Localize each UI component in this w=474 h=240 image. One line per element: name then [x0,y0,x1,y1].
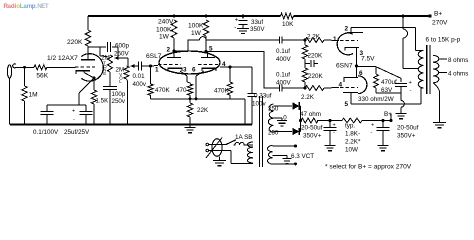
label pin 5 U3B [345,101,349,108]
triode U3A plate [347,28,363,33]
node B+ rail junctions [173,14,432,17]
svg-text:100K: 100K [156,27,172,34]
node cathode 6SN7 [355,65,358,68]
svg-text:B+: B+ [434,11,442,18]
svg-text:* select for B+ = approx 270V: * select for B+ = approx 270V [325,163,412,170]
label 100p [112,91,126,98]
wire 8 ohm tap [439,58,447,60]
triode U3A envelope [337,33,353,55]
label pin 4 U3B [339,82,343,89]
wire 470 bottom [189,95,191,99]
wire tone bottom to 100p [109,72,111,86]
capacitor 100p [103,87,117,90]
capacitor 0.33uf [248,94,257,97]
wire 330 bottom bus [376,87,401,94]
svg-text:6.3 VCT: 6.3 VCT [291,153,314,160]
svg-text:600p: 600p [115,43,130,50]
label pin 6 [192,67,196,74]
resistor 100K 1W second [203,20,208,36]
label 100v [252,101,267,108]
svg-text:6 to 15K p-p: 6 to 15K p-p [426,37,461,44]
resistor 470K right [227,82,232,95]
label 1A SB [235,134,253,141]
svg-text:470: 470 [176,87,187,94]
wire 1M bottom lead [24,101,26,125]
svg-text:-: - [410,88,412,94]
fuse 1A SB [234,142,254,145]
wire plate1 coupling [174,37,279,51]
svg-text:0.1/100V: 0.1/100V [33,129,59,136]
label 100K 1W second [188,23,204,38]
label 8 ohms [448,57,468,64]
label 1.5K [96,98,110,105]
resistor 2.2K second [305,86,324,91]
label 470K right [214,88,230,95]
wire 220K1 top lead [304,40,306,45]
svg-text:+: + [371,123,374,129]
label 6SN7 [336,63,353,70]
label 33uf [251,19,263,26]
label 6 to 15K p-p [426,37,461,44]
svg-text:+: + [235,18,239,24]
ground amp [185,128,196,133]
wire 1.5K top [93,78,95,90]
label typ [345,123,355,130]
wire plate to 600p [88,46,106,47]
svg-text:20-50uf: 20-50uf [301,125,323,132]
svg-text:1.8K-: 1.8K- [345,131,360,138]
transformer T1 6.3V winding [268,146,273,165]
label 470K left [155,87,171,94]
svg-text:250: 250 [268,130,279,137]
node plate2 [205,50,208,53]
svg-text:1W: 1W [191,30,202,37]
wire grid junction drop [150,66,152,84]
svg-text:350V: 350V [250,26,265,33]
label pin 4 [222,61,226,68]
label 350V+ first [303,133,322,140]
label 20-50uf first [301,125,323,132]
wire 600p to tone tap [112,47,118,58]
svg-text:B+: B+ [384,111,392,118]
wire 33uf lead [242,16,244,18]
ground HV center [277,121,287,126]
resistor 220K plate [85,30,90,46]
label 1.8K [345,131,360,138]
resistor 100K 1W first [171,20,176,38]
svg-text:1: 1 [333,36,337,43]
label pin 1 U3A [333,36,337,43]
label B+ out [384,111,392,118]
label 220K divider top [308,53,324,60]
label 2.2K first [307,33,321,40]
svg-text:330 ohm/2W: 330 ohm/2W [358,96,394,103]
svg-text:270V: 270V [432,20,448,27]
label 63V [381,87,393,94]
svg-text:33uf: 33uf [251,19,263,26]
wire 1M top lead [24,67,26,86]
label 20-50uf second [397,125,419,132]
transformer T2 core [427,45,430,94]
triode U3B cathode [344,67,358,83]
svg-text:1/2 12AX7: 1/2 12AX7 [47,55,78,62]
wire cathode ground hop [401,93,404,113]
svg-text:2.2K: 2.2K [307,33,321,40]
resistor 47 ohm [301,118,318,123]
label 350V [250,26,265,33]
wire plug ground [219,156,221,160]
label pin 2 [167,47,171,54]
wire HV center tap [274,118,283,120]
label 6.3 VCT [291,153,314,160]
svg-text:100K: 100K [188,23,204,30]
wire 2.2K to pin1 [324,39,339,42]
triode U3A cathode [345,48,359,67]
capacitor 20-50uf second [371,121,390,146]
wire tone wiper to vol [127,58,129,66]
svg-text:25uf/25V: 25uf/25V [64,129,90,136]
ground speaker [433,123,446,128]
label VOL vertical [119,72,123,84]
svg-text:0.1uf: 0.1uf [276,72,290,79]
wire 220K top lead [87,16,89,30]
label 0.01 [133,73,146,80]
wire 0.01 to grid [142,65,158,68]
resistor 10K [281,13,294,19]
wire B+ out [390,114,392,121]
transformer T2 primary [418,51,423,89]
svg-text:350V+: 350V+ [397,133,416,140]
svg-text:2: 2 [345,26,349,33]
transformer T1 HV secondary [268,104,273,133]
label pin 3 U3A [360,50,364,57]
wire 100K-1 to plate [173,38,175,51]
svg-text:350V+: 350V+ [303,133,322,140]
resistor 2.2K first [305,38,324,43]
svg-text:1W: 1W [159,34,170,41]
svg-text:7.5V: 7.5V [361,56,375,63]
svg-text:typ.: typ. [345,123,355,130]
svg-text:100p: 100p [112,91,126,98]
label 47 ohm [300,111,321,118]
triode U2B cathode [202,68,216,71]
resistor filter series [342,118,362,123]
label 10K [282,21,294,28]
svg-text:2.2K: 2.2K [301,94,315,101]
label 25uf/25V [64,129,90,136]
resistor 470K left [148,84,153,95]
svg-text:0.1uf: 0.1uf [276,48,290,55]
svg-text:220K: 220K [308,53,324,60]
svg-text:6: 6 [192,67,196,74]
svg-text:10W: 10W [345,147,358,154]
wire 100p bottom [109,90,111,125]
label 1M [29,92,38,99]
svg-text:220K: 220K [67,39,83,46]
triode U1 cathode [76,71,90,74]
label 0 center [283,115,287,122]
wire 470K left bottom [150,95,152,99]
wire 470K right bottom [229,95,231,99]
node rectifier [299,119,302,122]
label 7.5V [361,56,375,63]
wire vol wiper tail [137,65,139,67]
potentiometer 2M volume [124,66,129,79]
label 2.2K star [345,139,361,146]
resistor 22K [187,103,192,117]
wire B+ to OPT center tap [403,16,418,69]
wire 6.3 center tap [273,156,288,159]
label 2M tone [101,54,110,61]
wire 22K top [189,99,191,103]
wire cathode bus [357,67,402,83]
svg-text:1A SB: 1A SB [235,134,253,141]
wire 0.1uf2 to 2.2K2 [282,87,305,89]
ground 6SN7 cathode [396,114,407,119]
wire divider node [304,59,306,68]
svg-text:1.5K: 1.5K [96,98,110,105]
triode U2B plate [201,52,215,58]
svg-text:220K: 220K [308,73,324,80]
label 1/2 12AX7 [47,55,78,62]
label 250 bottom [268,130,279,137]
ground filter cap2 [378,146,389,151]
svg-text:+: + [333,123,336,129]
triode U3B envelope [358,76,367,94]
potentiometer 2M tone [108,55,113,72]
svg-text:E: E [103,71,106,76]
transformer T1 core [260,96,263,167]
svg-text:5: 5 [345,101,349,108]
wire filter 1 [317,120,342,122]
wire 6.3 top [273,145,298,148]
ground 6.3 center [283,158,292,163]
label 330 ohm 2W [358,96,394,103]
wire plate2 coupling [206,52,279,89]
node pin4 junction [229,66,232,69]
wire input to 56K [16,66,34,68]
wire bottom ground rail [10,124,252,126]
svg-text:6SL7: 6SL7 [146,53,162,60]
svg-text:4: 4 [339,82,343,89]
svg-text:1: 1 [155,67,159,74]
wire rectifier out [300,120,303,122]
label 10W [345,147,358,154]
wire bypass cap bus [47,104,86,106]
label 2.2K second [301,94,315,101]
wire pin4 to 470K right [220,67,252,82]
wire plug bottom prong [209,151,253,164]
wire U2A cathode lead [180,71,191,83]
svg-text:250V: 250V [114,50,130,57]
wire 100K-2 to plate [205,36,207,52]
wire pin4 to 0.33uf [251,67,253,94]
label 56K [36,73,48,80]
label 0.1/100V [33,129,59,136]
svg-text:-: - [73,117,75,123]
wire 22K bottom [189,117,191,127]
svg-text:2.2K*: 2.2K* [345,139,361,146]
resistor 1.5K [91,90,96,104]
svg-text:250v: 250v [112,98,126,105]
svg-text:10K: 10K [282,21,294,28]
svg-text:47 ohm: 47 ohm [300,111,321,118]
wire 33uf to ground [242,25,244,29]
wire HV bottom tap [274,131,293,133]
pot volume wiper arrow [131,64,139,68]
svg-text:3: 3 [183,67,187,74]
capacitor 33uf 350V [234,18,247,32]
node 220K top [304,39,307,42]
svg-text:22K: 22K [197,107,209,114]
wire 6.3 bottom [273,162,298,165]
label 0.1uf second [276,72,290,79]
svg-text:-: - [333,130,335,136]
tube U2 6SL7 envelope [159,51,220,74]
triode U3B grid [340,87,358,89]
label 0.33uf [254,93,272,100]
triode U1 plate [81,47,95,60]
node grid junction [149,65,152,68]
diode D2 [293,128,300,135]
capacitor 600p [107,42,110,52]
svg-text:1M: 1M [29,92,38,99]
wire 56K to grid [47,66,76,68]
resistor 1M [22,86,27,101]
svg-text:0.01: 0.01 [133,73,146,80]
wire 0.1uf to 2.2K [282,39,305,41]
label 250V cap600 [114,50,130,57]
label 4 ohms [448,71,468,78]
wire diode join [299,106,300,132]
node cathode junction [93,77,96,80]
capacitor 25uf/25V [72,105,93,125]
svg-text:2: 2 [167,47,171,54]
wire U2B cathode lead [196,71,204,99]
transformer T1 primary [247,142,253,163]
capacitor 0.1uf 400V second [279,85,282,92]
wire volume bottom [127,79,128,125]
triode U1 grid [75,66,95,68]
svg-text:470K: 470K [214,88,230,95]
resistor 470 center [187,84,192,95]
svg-text:400V: 400V [276,56,292,63]
label 250v cap100 [112,98,126,105]
capacitor 20-50uf first [324,121,337,146]
resistor 56K [34,65,47,70]
node input junction [23,66,26,69]
switch blade [226,140,236,145]
transformer T2 secondary [433,55,439,82]
triode U3A grid [340,40,358,42]
node filter cap2 [382,119,385,122]
input jack J1 [7,64,16,78]
note select B+ [325,163,412,170]
watermark logo [4,3,49,10]
svg-text:6SN7: 6SN7 [336,63,353,70]
AC plug [206,138,222,159]
triode U3B plate [343,93,358,105]
triode U2A cathode [168,68,182,71]
svg-text:4 ohms: 4 ohms [448,71,468,78]
label pin 3 [183,67,187,74]
wire tone top [100,47,108,57]
wire B+ rail [88,15,430,17]
label 400v cap001 [133,81,147,88]
capacitor 0.01uf [138,62,141,71]
ground 33uf [237,28,249,33]
svg-text:+: + [72,109,75,115]
diode D1 [293,102,300,110]
label 22K [197,107,209,114]
label TONE vertical [103,61,107,77]
svg-text:400v: 400v [133,81,147,88]
resistor 220K divider top [302,45,307,59]
wire 0.33uf bottom [251,97,253,125]
node B+ out [390,119,393,122]
capacitor 470uf 63V [395,80,413,94]
ground filter cap1 [325,146,336,151]
ground AC [213,161,226,166]
label pin 5 [209,46,213,53]
pot tone wiper arrow [115,56,129,60]
svg-text:470K: 470K [155,87,171,94]
label 0.1uf first [276,48,290,55]
wire 1.5K bottom [93,104,95,125]
label 470uf [381,79,397,86]
label 240V [158,19,174,26]
wire plate U3A to OPT [351,28,423,51]
capacitor divider small [305,60,318,67]
label B+ terminal [434,11,442,18]
svg-text:-: - [371,130,373,136]
svg-text:T: T [45,3,49,10]
wire 2.2K2 to pin4 [324,87,339,90]
wire jack ground lead [9,78,11,125]
capacitor 0.1uf 400V first [279,37,282,44]
svg-text:20-50uf: 20-50uf [397,125,419,132]
wire HV top tap [274,105,293,107]
svg-text:470uf: 470uf [381,79,397,86]
svg-text:56K: 56K [36,73,48,80]
node 220K bottom [304,87,307,90]
label 400V first [276,56,292,63]
wire plate U3B to OPT [351,88,423,104]
wire plug top prong [209,144,226,146]
label pin 2 U3A [345,26,349,33]
node filter cap1 [329,119,332,122]
capacitor 0.1/100V [41,105,54,125]
label 220K [67,39,83,46]
wire cathode drop [79,78,94,105]
wire filter 2 [362,120,391,122]
svg-text:-: - [234,25,236,31]
label 270V [432,20,448,27]
svg-text:400V: 400V [276,80,292,87]
label pin 6 U3B [359,70,363,77]
label 100K 1W first [156,27,172,41]
wire 220K2 bottom lead [304,82,306,88]
svg-text:250: 250 [268,106,279,113]
node bus junctions [189,97,198,100]
label 6SL7 [146,53,162,60]
wire 4 ohm tap [439,72,447,74]
label 350V+ second [397,133,416,140]
label 250 top [268,106,279,113]
triode U2B grid [198,64,219,66]
label 600p [115,43,130,50]
triode U1 12AX7 envelope [81,54,103,81]
